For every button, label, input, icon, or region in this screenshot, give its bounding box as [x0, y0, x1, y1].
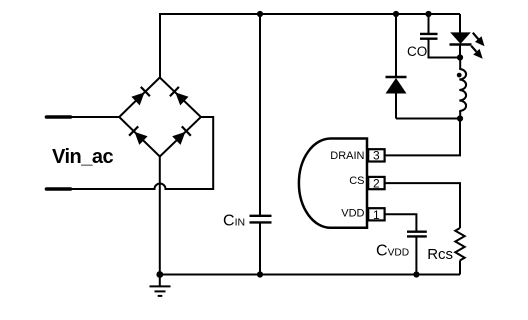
- svg-text:2: 2: [373, 177, 380, 191]
- LED D2: [450, 14, 472, 58]
- wire drain pin3 to winding: [386, 119, 461, 156]
- terminal Vin_ac lower: [47, 187, 71, 191]
- wire upper AC input: [71, 116, 120, 118]
- svg-text:DRAIN: DRAIN: [330, 150, 364, 162]
- pin 3 box: [368, 149, 384, 161]
- junction LED cathode / CO / winding: [457, 54, 463, 60]
- junction D1 top: [393, 11, 399, 17]
- bridge rectifier diamond: [119, 78, 201, 157]
- terminal Vin_ac upper: [47, 115, 71, 119]
- winding polarity dot: [457, 73, 462, 78]
- junction ground node: [156, 271, 163, 278]
- wire top rail: [160, 14, 460, 78]
- junction CIN bottom: [257, 271, 263, 277]
- junction CVDD bottom: [413, 271, 419, 277]
- capacitor CO: [420, 14, 460, 58]
- bridge diode top-left: [131, 87, 150, 106]
- junction CO top: [425, 11, 431, 17]
- svg-text:CO: CO: [407, 44, 427, 59]
- pin 2 box: [368, 177, 384, 189]
- resistor Rcs: [455, 228, 464, 275]
- svg-text:1: 1: [373, 208, 380, 222]
- bridge diode bottom-left: [129, 126, 148, 144]
- wire bottom rail: [160, 274, 460, 276]
- wire cs pin2 to Rcs: [386, 183, 461, 228]
- wire vdd pin1 to Cvdd: [386, 214, 417, 231]
- svg-text:Vin_ac: Vin_ac: [52, 146, 113, 168]
- LED emission arrow 1: [473, 33, 485, 47]
- capacitor CVDD: [407, 232, 427, 275]
- bridge diode top-right: [170, 87, 189, 106]
- ground: [150, 275, 171, 296]
- bridge diode bottom-right: [172, 126, 191, 144]
- svg-text:CS: CS: [349, 175, 364, 187]
- svg-text:3: 3: [373, 149, 380, 163]
- pin 1 box: [368, 208, 384, 220]
- diode D1 freewheeling: [386, 14, 461, 119]
- junction winding bottom / D1 / drain: [457, 115, 463, 121]
- inductor L1 transformer winding: [459, 58, 466, 119]
- capacitor CIN: [250, 14, 272, 275]
- wire bridge bottom to ground rail: [159, 157, 161, 275]
- LED emission arrow 2: [471, 46, 483, 59]
- wire lower AC input with hop over bridge leg: [71, 117, 214, 189]
- IC U1 body: [299, 139, 367, 228]
- svg-text:Rcs: Rcs: [427, 246, 453, 263]
- svg-text:VDD: VDD: [341, 207, 364, 219]
- junction CIN top: [257, 11, 263, 17]
